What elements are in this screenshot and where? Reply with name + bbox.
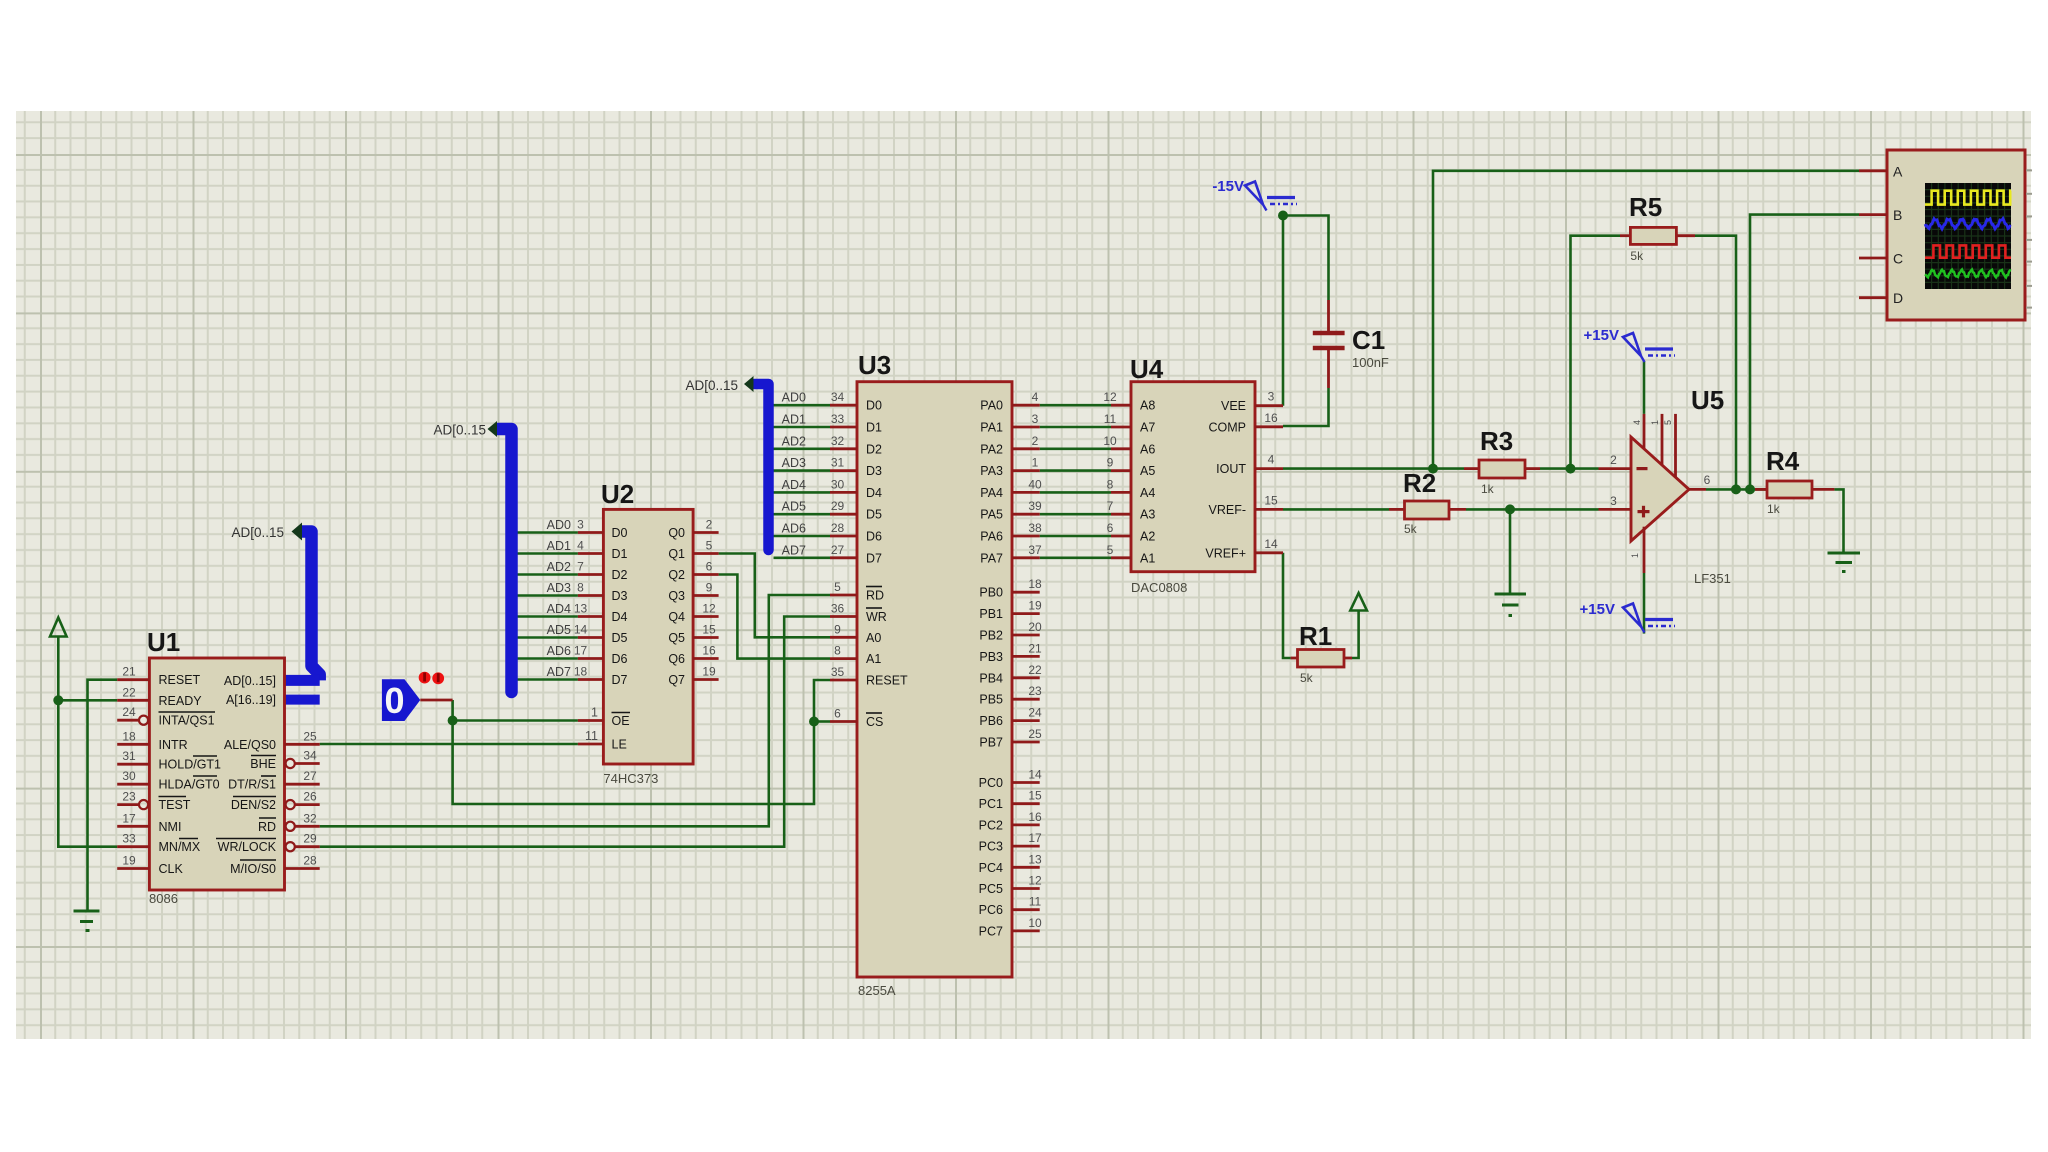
svg-text:8255A: 8255A bbox=[858, 983, 896, 998]
svg-text:D5: D5 bbox=[866, 508, 882, 522]
svg-text:30: 30 bbox=[831, 477, 845, 491]
node junction VREF- ground tap bbox=[1505, 504, 1515, 514]
wire branch to U3 CS bbox=[814, 720, 830, 723]
svg-text:15: 15 bbox=[1264, 493, 1278, 507]
bus entry arrow U2 bbox=[488, 421, 498, 437]
wire U4 VREF- to R2 bbox=[1283, 508, 1389, 511]
svg-text:AD3: AD3 bbox=[547, 581, 571, 595]
svg-text:B: B bbox=[1893, 207, 1902, 223]
svg-text:MN/MX: MN/MX bbox=[159, 840, 201, 854]
scope trace channel A yellow square bbox=[1925, 191, 2011, 205]
svg-text:A5: A5 bbox=[1140, 464, 1155, 478]
svg-text:VREF-: VREF- bbox=[1209, 503, 1247, 517]
wire feedback up to scope A bbox=[1433, 171, 1859, 469]
svg-text:31: 31 bbox=[122, 749, 136, 763]
svg-text:D7: D7 bbox=[866, 551, 882, 565]
op-amp U5 LF351 bbox=[1599, 385, 1731, 586]
chip U2 74HC373 bbox=[547, 479, 719, 786]
svg-text:22: 22 bbox=[122, 685, 136, 699]
svg-text:D4: D4 bbox=[612, 610, 628, 624]
svg-text:D2: D2 bbox=[612, 568, 628, 582]
svg-text:PB7: PB7 bbox=[979, 736, 1003, 750]
wire C1 bottom to U4 COMP bbox=[1283, 388, 1329, 426]
svg-text:3: 3 bbox=[1032, 412, 1039, 426]
svg-text:U3: U3 bbox=[858, 350, 891, 380]
svg-text:PC2: PC2 bbox=[979, 818, 1003, 832]
svg-text:15: 15 bbox=[1028, 789, 1042, 803]
svg-text:NMI: NMI bbox=[159, 820, 182, 834]
ground near R2 bbox=[1495, 594, 1527, 616]
svg-text:PB3: PB3 bbox=[979, 650, 1003, 664]
svg-text:5: 5 bbox=[1663, 420, 1673, 425]
svg-text:31: 31 bbox=[831, 456, 845, 470]
svg-text:40: 40 bbox=[1028, 477, 1042, 491]
svg-text:D1: D1 bbox=[866, 421, 882, 435]
resistor R3 1k bbox=[1464, 426, 1540, 496]
svg-text:D7: D7 bbox=[612, 673, 628, 687]
svg-text:+15V: +15V bbox=[1584, 327, 1619, 344]
svg-text:32: 32 bbox=[303, 811, 317, 825]
power +15V below U5 bbox=[1580, 601, 1675, 633]
svg-text:D4: D4 bbox=[866, 486, 882, 500]
svg-text:5: 5 bbox=[834, 580, 841, 594]
svg-text:8086: 8086 bbox=[149, 891, 178, 906]
scope trace channel D green wave bbox=[1925, 270, 2011, 278]
svg-text:20: 20 bbox=[1028, 620, 1042, 634]
svg-text:12: 12 bbox=[1103, 390, 1117, 404]
wire U2 Q1 to U3 A0 bbox=[719, 554, 830, 638]
svg-text:18: 18 bbox=[1028, 577, 1042, 591]
svg-text:22: 22 bbox=[1028, 663, 1042, 677]
svg-text:27: 27 bbox=[831, 543, 845, 557]
svg-text:PB4: PB4 bbox=[979, 671, 1003, 685]
svg-text:17: 17 bbox=[122, 811, 136, 825]
svg-text:PA3: PA3 bbox=[980, 464, 1003, 478]
wire U1 RESET to ground bbox=[88, 680, 118, 911]
svg-text:U2: U2 bbox=[601, 479, 634, 509]
svg-text:7: 7 bbox=[577, 560, 584, 574]
svg-text:COMP: COMP bbox=[1209, 420, 1247, 434]
svg-text:3: 3 bbox=[577, 518, 584, 532]
svg-text:13: 13 bbox=[574, 602, 588, 616]
svg-text:25: 25 bbox=[303, 729, 317, 743]
svg-text:VREF+: VREF+ bbox=[1205, 546, 1246, 560]
svg-text:27: 27 bbox=[303, 769, 317, 783]
wire U4 IOUT to R3 bbox=[1283, 467, 1464, 470]
wire U1 READY to power rail bbox=[58, 699, 117, 702]
svg-text:PC1: PC1 bbox=[979, 797, 1003, 811]
svg-text:36: 36 bbox=[831, 602, 845, 616]
svg-text:PA1: PA1 bbox=[980, 421, 1003, 435]
svg-text:3: 3 bbox=[1268, 390, 1275, 404]
svg-text:PC6: PC6 bbox=[979, 903, 1003, 917]
svg-text:PA6: PA6 bbox=[980, 530, 1003, 544]
resistor R2 5k bbox=[1389, 468, 1466, 536]
svg-text:D1: D1 bbox=[612, 547, 628, 561]
svg-text:AD5: AD5 bbox=[782, 500, 806, 514]
chip U4 DAC0808 bbox=[1103, 354, 1283, 595]
svg-text:AD4: AD4 bbox=[547, 602, 571, 616]
svg-text:AD7: AD7 bbox=[547, 665, 571, 679]
svg-text:U1: U1 bbox=[147, 627, 180, 657]
resistor R5 5k bbox=[1620, 192, 1695, 263]
svg-text:12: 12 bbox=[702, 602, 716, 616]
svg-text:29: 29 bbox=[831, 499, 845, 513]
svg-text:RD: RD bbox=[866, 589, 884, 603]
svg-text:DEN/S2: DEN/S2 bbox=[231, 798, 276, 812]
wire branch to U2 OE bbox=[453, 719, 578, 722]
svg-text:AD[0..15: AD[0..15 bbox=[433, 423, 486, 438]
svg-text:RD: RD bbox=[258, 820, 276, 834]
svg-text:D0: D0 bbox=[612, 526, 628, 540]
wire +15V to opamp top pin bbox=[1643, 361, 1646, 414]
svg-text:Q7: Q7 bbox=[668, 673, 685, 687]
node junction -15V bbox=[1278, 211, 1288, 221]
svg-text:38: 38 bbox=[1028, 521, 1042, 535]
svg-text:C: C bbox=[1893, 251, 1903, 267]
svg-text:Q6: Q6 bbox=[668, 652, 685, 666]
wire U4 VREF+ down to R1 bbox=[1283, 553, 1291, 658]
power symbol near R1 bbox=[1350, 593, 1367, 611]
svg-text:C1: C1 bbox=[1352, 325, 1385, 355]
svg-text:8: 8 bbox=[834, 644, 841, 658]
svg-text:5k: 5k bbox=[1630, 249, 1644, 263]
bus AD[0..15] at U3 bbox=[755, 384, 769, 550]
svg-text:17: 17 bbox=[574, 644, 588, 658]
svg-text:DT/R/S1: DT/R/S1 bbox=[228, 778, 276, 792]
svg-text:A7: A7 bbox=[1140, 421, 1155, 435]
svg-text:PB2: PB2 bbox=[979, 629, 1003, 643]
capacitor C1 100nF bbox=[1313, 300, 1389, 388]
svg-text:A0: A0 bbox=[866, 631, 881, 645]
svg-text:AD6: AD6 bbox=[782, 522, 806, 536]
svg-text:PB0: PB0 bbox=[979, 586, 1003, 600]
ground near R4 bbox=[1828, 553, 1861, 572]
svg-text:6: 6 bbox=[706, 560, 713, 574]
svg-text:16: 16 bbox=[702, 644, 716, 658]
node junction IOUT feedback bbox=[1428, 464, 1438, 474]
scope trace channel C red square bbox=[1925, 245, 2011, 257]
svg-text:AD2: AD2 bbox=[782, 434, 806, 448]
wire tag 0 stub bbox=[420, 699, 452, 702]
svg-text:U5: U5 bbox=[1691, 385, 1724, 415]
svg-text:A3: A3 bbox=[1140, 508, 1155, 522]
svg-text:AD[0..15]: AD[0..15] bbox=[224, 674, 276, 688]
svg-text:32: 32 bbox=[831, 434, 845, 448]
bus entry arrow U3 bbox=[744, 376, 754, 392]
svg-text:PC7: PC7 bbox=[979, 924, 1003, 938]
svg-text:6: 6 bbox=[1704, 473, 1711, 487]
svg-text:PA0: PA0 bbox=[980, 399, 1003, 413]
node junction R5 tap bbox=[1566, 464, 1576, 474]
svg-text:Q2: Q2 bbox=[668, 568, 685, 582]
wire U1 ALE to U2 LE bbox=[320, 743, 578, 746]
wire -15V rail to U4 VEE bbox=[1282, 216, 1285, 406]
svg-text:33: 33 bbox=[122, 832, 136, 846]
node junction output scope B bbox=[1745, 484, 1755, 494]
svg-text:AD2: AD2 bbox=[547, 560, 571, 574]
svg-text:D2: D2 bbox=[866, 442, 882, 456]
svg-text:A2: A2 bbox=[1140, 530, 1155, 544]
svg-text:39: 39 bbox=[1028, 499, 1042, 513]
svg-text:5: 5 bbox=[1107, 543, 1114, 557]
svg-text:R5: R5 bbox=[1629, 192, 1662, 222]
oscilloscope bbox=[1887, 150, 2025, 320]
svg-text:A[16..19]: A[16..19] bbox=[226, 693, 276, 707]
svg-text:8: 8 bbox=[577, 581, 584, 595]
svg-text:AD[0..15: AD[0..15 bbox=[685, 378, 738, 393]
svg-text:1: 1 bbox=[1630, 553, 1640, 558]
wire U1 WR/LOCK to U3 WR bbox=[320, 617, 830, 847]
wire U3 PA to U4 A inputs bbox=[1040, 405, 1111, 558]
svg-text:19: 19 bbox=[1028, 599, 1042, 613]
svg-text:4: 4 bbox=[577, 539, 584, 553]
node junction CS branch bbox=[809, 717, 819, 727]
svg-text:Q0: Q0 bbox=[668, 526, 685, 540]
svg-text:9: 9 bbox=[1107, 456, 1114, 470]
power symbol near U1 bbox=[50, 618, 67, 637]
svg-text:WR/LOCK: WR/LOCK bbox=[218, 840, 277, 854]
svg-text:33: 33 bbox=[831, 412, 845, 426]
svg-text:AD7: AD7 bbox=[782, 543, 806, 557]
svg-text:CLK: CLK bbox=[159, 862, 184, 876]
svg-text:PA5: PA5 bbox=[980, 508, 1003, 522]
svg-text:A6: A6 bbox=[1140, 442, 1155, 456]
svg-text:AD0: AD0 bbox=[782, 391, 806, 405]
svg-text:PA7: PA7 bbox=[980, 551, 1003, 565]
svg-text:19: 19 bbox=[702, 665, 716, 679]
svg-text:1: 1 bbox=[1032, 456, 1039, 470]
svg-text:5k: 5k bbox=[1404, 522, 1418, 536]
svg-text:Q1: Q1 bbox=[668, 547, 685, 561]
svg-text:25: 25 bbox=[1028, 727, 1042, 741]
svg-text:13: 13 bbox=[1028, 852, 1042, 866]
svg-text:LF351: LF351 bbox=[1694, 571, 1731, 586]
power +15V above U5 bbox=[1584, 327, 1675, 362]
svg-text:M/IO/S0: M/IO/S0 bbox=[230, 862, 276, 876]
wire R3 to opamp pin2 bbox=[1540, 467, 1599, 470]
svg-text:34: 34 bbox=[831, 390, 845, 404]
svg-text:10: 10 bbox=[1028, 916, 1042, 930]
svg-text:A8: A8 bbox=[1140, 399, 1155, 413]
svg-text:OE: OE bbox=[612, 714, 630, 728]
svg-text:0: 0 bbox=[384, 680, 404, 721]
svg-text:2: 2 bbox=[706, 518, 713, 532]
svg-text:5: 5 bbox=[706, 539, 713, 553]
svg-text:A1: A1 bbox=[866, 652, 881, 666]
node junction OE branch bbox=[448, 716, 458, 726]
svg-text:D5: D5 bbox=[612, 631, 628, 645]
svg-text:4: 4 bbox=[1632, 420, 1642, 425]
svg-text:2: 2 bbox=[1032, 434, 1039, 448]
svg-text:PC3: PC3 bbox=[979, 840, 1003, 854]
svg-text:READY: READY bbox=[159, 694, 203, 708]
svg-text:INTA/QS1: INTA/QS1 bbox=[159, 714, 215, 728]
svg-text:A4: A4 bbox=[1140, 486, 1155, 500]
svg-text:PB5: PB5 bbox=[979, 693, 1003, 707]
svg-text:VEE: VEE bbox=[1221, 399, 1246, 413]
svg-text:5k: 5k bbox=[1300, 671, 1314, 685]
svg-text:34: 34 bbox=[303, 749, 317, 763]
svg-text:19: 19 bbox=[122, 854, 136, 868]
svg-text:4: 4 bbox=[1032, 390, 1039, 404]
svg-text:16: 16 bbox=[1028, 810, 1042, 824]
svg-text:6: 6 bbox=[834, 707, 841, 721]
svg-text:PC0: PC0 bbox=[979, 776, 1003, 790]
wire -15V rail to C1 top bbox=[1283, 216, 1329, 301]
wire R2 to opamp pin3 bbox=[1466, 508, 1599, 511]
svg-text:24: 24 bbox=[1028, 706, 1042, 720]
svg-text:11: 11 bbox=[585, 729, 598, 743]
svg-text:D6: D6 bbox=[866, 530, 882, 544]
power -15V near C1 bbox=[1212, 178, 1297, 211]
svg-text:PC4: PC4 bbox=[979, 861, 1003, 875]
svg-text:U4: U4 bbox=[1130, 354, 1164, 384]
marker red dot 1 bbox=[419, 672, 431, 684]
svg-text:R3: R3 bbox=[1480, 426, 1513, 456]
ground near U1 bbox=[74, 911, 100, 931]
wire R4 to ground bbox=[1834, 489, 1843, 553]
svg-text:ALE/QS0: ALE/QS0 bbox=[224, 738, 276, 752]
svg-text:18: 18 bbox=[574, 665, 588, 679]
wire down to ground near R2 bbox=[1509, 509, 1512, 594]
resistor R1 5k bbox=[1291, 621, 1352, 685]
bus tag 0 bbox=[382, 679, 420, 721]
svg-text:1k: 1k bbox=[1481, 482, 1495, 496]
svg-text:10: 10 bbox=[1103, 434, 1117, 448]
svg-text:AD1: AD1 bbox=[547, 539, 571, 553]
svg-text:30: 30 bbox=[122, 769, 136, 783]
svg-text:4: 4 bbox=[1268, 453, 1275, 467]
svg-text:R2: R2 bbox=[1403, 468, 1436, 498]
svg-text:14: 14 bbox=[1264, 537, 1278, 551]
svg-text:A1: A1 bbox=[1140, 551, 1155, 565]
svg-text:23: 23 bbox=[122, 790, 136, 804]
svg-text:RESET: RESET bbox=[866, 674, 908, 688]
wire output up to scope B bbox=[1750, 215, 1859, 490]
wire R5 right branch bbox=[1695, 236, 1736, 490]
svg-text:R4: R4 bbox=[1766, 446, 1800, 476]
svg-text:D0: D0 bbox=[866, 399, 882, 413]
wire U1 RD to U3 RD bbox=[320, 595, 830, 826]
svg-text:PC5: PC5 bbox=[979, 882, 1003, 896]
svg-text:PA4: PA4 bbox=[980, 486, 1003, 500]
wire opamp bottom pin to +15V bbox=[1643, 573, 1646, 634]
svg-text:HLDA/GT0: HLDA/GT0 bbox=[159, 778, 220, 792]
svg-text:CS: CS bbox=[866, 715, 883, 729]
svg-text:37: 37 bbox=[1028, 543, 1042, 557]
wire U2 Q2 to U3 A1 bbox=[719, 575, 830, 659]
svg-text:11: 11 bbox=[1104, 412, 1117, 426]
wire bus3 to U3 D inputs bbox=[774, 405, 831, 558]
bus AD[0..15] at U1 bbox=[281, 532, 320, 681]
svg-text:1: 1 bbox=[591, 706, 598, 720]
svg-text:A: A bbox=[1893, 163, 1903, 179]
svg-text:R1: R1 bbox=[1299, 621, 1332, 651]
svg-text:9: 9 bbox=[706, 581, 713, 595]
chip U3 8255A bbox=[782, 350, 1042, 998]
svg-text:28: 28 bbox=[303, 854, 317, 868]
bus pin A[16..19] of U1 bbox=[281, 695, 320, 705]
chip U1 8086 bbox=[117, 627, 320, 906]
bus AD[0..15] at U2 bbox=[498, 429, 512, 692]
svg-text:6: 6 bbox=[1107, 521, 1114, 535]
svg-text:Q4: Q4 bbox=[668, 610, 685, 624]
bus entry arrow U1 bbox=[292, 523, 303, 541]
svg-text:WR: WR bbox=[866, 610, 887, 624]
svg-text:23: 23 bbox=[1028, 684, 1042, 698]
svg-text:7: 7 bbox=[1107, 499, 1114, 513]
svg-text:BHE: BHE bbox=[250, 757, 276, 771]
svg-text:AD5: AD5 bbox=[547, 623, 571, 637]
svg-text:17: 17 bbox=[1028, 831, 1042, 845]
svg-text:Q3: Q3 bbox=[668, 589, 685, 603]
wire R1 to power arrow bbox=[1352, 611, 1359, 659]
svg-text:29: 29 bbox=[303, 832, 317, 846]
svg-text:PB6: PB6 bbox=[979, 714, 1003, 728]
svg-text:14: 14 bbox=[574, 623, 588, 637]
svg-text:100nF: 100nF bbox=[1352, 355, 1389, 370]
svg-text:IOUT: IOUT bbox=[1216, 462, 1246, 476]
svg-text:PB1: PB1 bbox=[979, 607, 1003, 621]
svg-text:AD1: AD1 bbox=[782, 413, 806, 427]
svg-text:16: 16 bbox=[1264, 411, 1278, 425]
wire power arrow to U1 MN/MX bbox=[58, 637, 117, 847]
svg-text:35: 35 bbox=[831, 665, 845, 679]
svg-text:RESET: RESET bbox=[159, 673, 201, 687]
svg-text:HOLD/GT1: HOLD/GT1 bbox=[159, 758, 222, 772]
svg-text:D: D bbox=[1893, 290, 1903, 306]
svg-text:21: 21 bbox=[122, 665, 136, 679]
svg-text:AD0: AD0 bbox=[547, 518, 571, 532]
wire bus2 to U2 D inputs bbox=[518, 533, 578, 680]
scope side ticks bbox=[2026, 170, 2032, 307]
svg-text:-15V: -15V bbox=[1212, 178, 1244, 195]
svg-text:24: 24 bbox=[122, 705, 136, 719]
svg-text:TEST: TEST bbox=[159, 798, 191, 812]
svg-text:AD4: AD4 bbox=[782, 478, 806, 492]
svg-text:2: 2 bbox=[1610, 453, 1617, 467]
svg-text:11: 11 bbox=[1029, 895, 1042, 909]
svg-text:DAC0808: DAC0808 bbox=[1131, 580, 1187, 595]
wire R5 left branch bbox=[1571, 236, 1621, 469]
svg-text:LE: LE bbox=[612, 738, 627, 752]
svg-text:28: 28 bbox=[831, 521, 845, 535]
svg-text:21: 21 bbox=[1028, 641, 1042, 655]
scope channel pins bbox=[1859, 163, 1903, 306]
wire tag0 net vertical and to U3 bbox=[453, 680, 830, 804]
svg-text:26: 26 bbox=[303, 790, 317, 804]
svg-text:1: 1 bbox=[1650, 420, 1660, 425]
svg-text:9: 9 bbox=[834, 622, 841, 636]
svg-text:1k: 1k bbox=[1767, 502, 1781, 516]
svg-text:+15V: +15V bbox=[1580, 601, 1615, 618]
svg-text:74HC373: 74HC373 bbox=[603, 771, 658, 786]
svg-text:15: 15 bbox=[702, 623, 716, 637]
svg-text:INTR: INTR bbox=[159, 738, 188, 752]
svg-text:AD6: AD6 bbox=[547, 644, 571, 658]
resistor R4 1k bbox=[1755, 446, 1834, 516]
svg-text:D3: D3 bbox=[866, 464, 882, 478]
svg-text:8: 8 bbox=[1107, 477, 1114, 491]
scope trace channel B blue wave bbox=[1925, 219, 2011, 229]
wire opamp output to R4 bbox=[1706, 488, 1767, 491]
svg-text:D3: D3 bbox=[612, 589, 628, 603]
node junction READY rail bbox=[53, 695, 63, 705]
svg-text:D6: D6 bbox=[612, 652, 628, 666]
svg-text:18: 18 bbox=[122, 729, 136, 743]
svg-text:AD3: AD3 bbox=[782, 456, 806, 470]
